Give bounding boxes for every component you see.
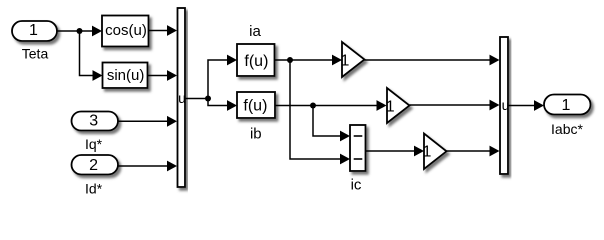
node junction Teta (77, 28, 83, 34)
gain G1 (341, 42, 365, 77)
wire inport2 to mux1 (118, 161, 177, 172)
inport 1 Teta (12, 21, 57, 41)
wire mux1 out (185, 98, 208, 100)
svg-text:ic: ic (351, 176, 362, 193)
gain G3 (423, 134, 447, 170)
wire u to fcn ia (208, 55, 237, 99)
gain G2 (386, 88, 410, 123)
outport 1 Iabc* (544, 95, 591, 115)
inport 3 (72, 112, 119, 131)
svg-text:1: 1 (423, 143, 432, 160)
sum block ic (Add with two minus) (350, 125, 366, 171)
svg-text:1: 1 (341, 52, 350, 69)
node junction ia (287, 57, 293, 63)
wire gain3 to mux2 (447, 146, 500, 157)
node junction u (205, 96, 211, 102)
wire gain2 to mux2 (410, 100, 500, 111)
svg-text:3: 3 (89, 113, 98, 130)
svg-text:Iq*: Iq* (85, 136, 103, 152)
svg-text:cos(u): cos(u) (105, 22, 147, 39)
svg-text:f(u): f(u) (243, 97, 267, 114)
svg-text:1: 1 (29, 22, 38, 39)
inport 2 (72, 155, 119, 175)
block Fcn f(u) ib (237, 92, 275, 118)
wire inport3 to mux1 (118, 116, 177, 127)
wire sin to mux1 (148, 70, 178, 81)
block sin(u) (103, 63, 148, 89)
wire u to fcn ib (208, 99, 237, 111)
wire sum to gain3 (366, 146, 425, 157)
block cos(u) (102, 16, 149, 47)
svg-text:Teta: Teta (22, 46, 49, 62)
svg-text:1: 1 (386, 99, 395, 116)
node junction ib (310, 103, 316, 109)
svg-text:ia: ia (249, 23, 261, 40)
wire ia to sum lower input (290, 60, 350, 164)
wire ib to sum upper input (313, 106, 350, 142)
wire fcn ia to gain1 (275, 55, 343, 66)
svg-text:u: u (178, 90, 186, 106)
wire Teta to cos (57, 26, 102, 37)
wire cos to mux1 (149, 25, 178, 36)
svg-text:2: 2 (89, 157, 98, 174)
svg-text:1: 1 (562, 97, 571, 114)
svg-text:sin(u): sin(u) (107, 67, 145, 84)
svg-text:Iabc*: Iabc* (551, 121, 583, 137)
wire gain1 to mux2 (365, 55, 500, 66)
block Fcn f(u) ia (237, 44, 275, 76)
wire Teta junction to sin (80, 31, 103, 81)
svg-text:Id*: Id* (85, 181, 103, 197)
mux U2 (right) (500, 37, 508, 174)
wire mux2 to outport (508, 100, 544, 111)
mux U1 (left) (178, 8, 186, 187)
svg-text:f(u): f(u) (244, 53, 268, 70)
wire fcn ib to gain2 (275, 100, 387, 111)
svg-text:ib: ib (250, 125, 262, 142)
